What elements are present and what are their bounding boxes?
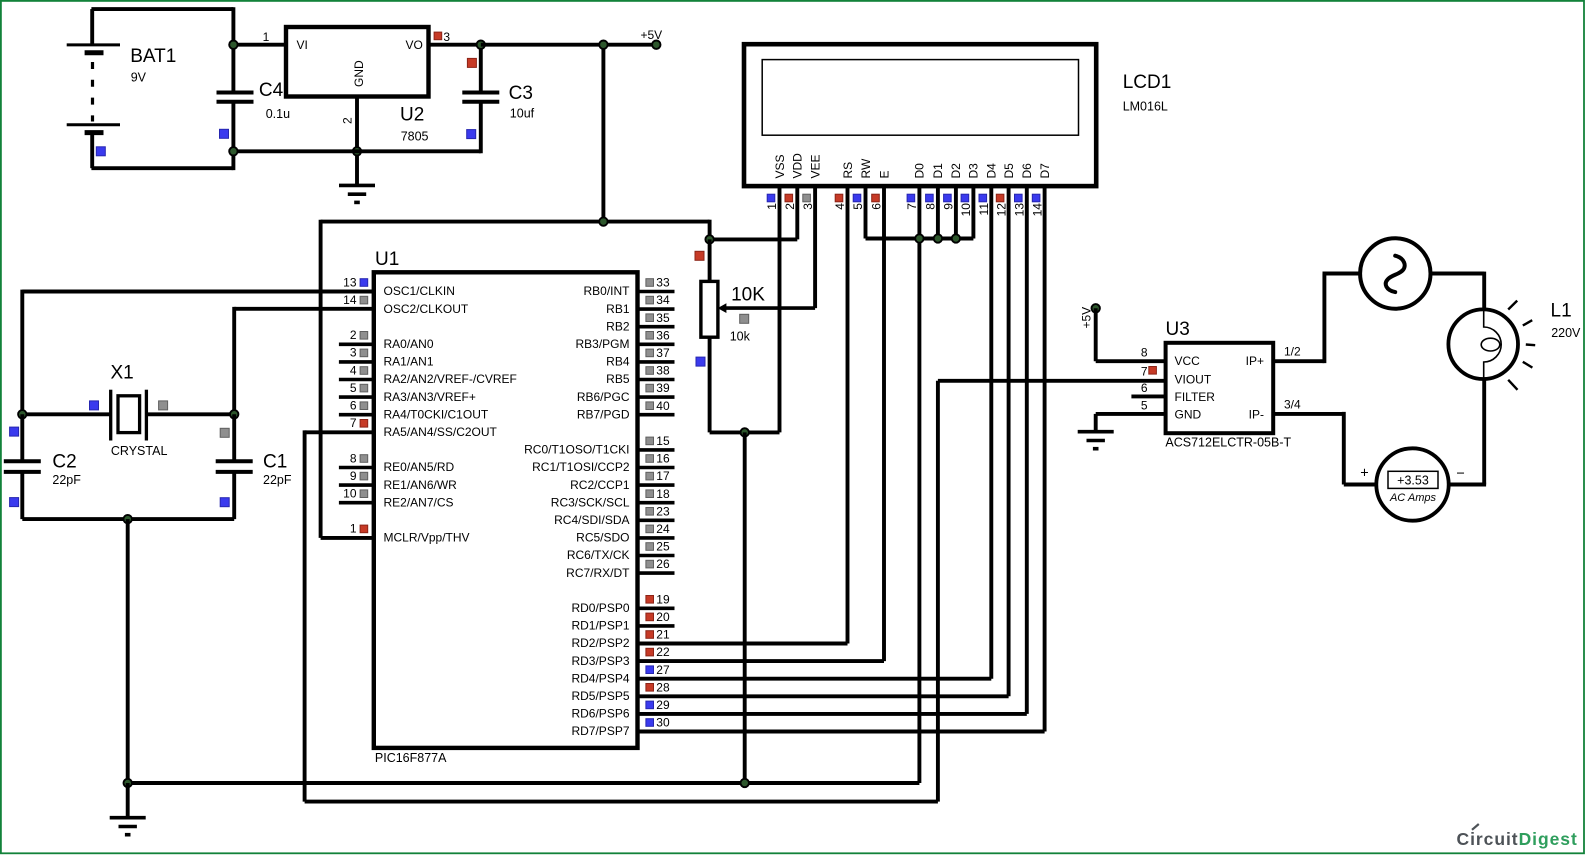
wire U3 VCC [1096, 359, 1166, 363]
wire U2 VI [233, 43, 286, 47]
wire pot bottom rail [710, 430, 780, 434]
svg-text:220V: 220V [1551, 326, 1581, 340]
label U2 [400, 104, 424, 125]
svg-text:3: 3 [443, 30, 450, 44]
junction D0 [915, 234, 923, 242]
pin 25 RC6/TX/CK U1 [567, 540, 675, 563]
svg-text:6: 6 [350, 399, 357, 413]
svg-text:C2: C2 [52, 451, 76, 472]
svg-text:25: 25 [656, 540, 670, 554]
pin 30 RD7/PSP7 U1 [571, 716, 1044, 739]
value C4 0.1u [266, 107, 290, 121]
svg-text:RC2/CCP1: RC2/CCP1 [570, 478, 630, 492]
svg-text:11: 11 [977, 203, 991, 216]
svg-text:PIC16F877A: PIC16F877A [375, 751, 447, 765]
svg-text:8: 8 [350, 451, 357, 465]
svg-text:RB3/PGM: RB3/PGM [575, 337, 629, 351]
pin 4 RA2/AN2/VREF-/CVREF U1 [339, 363, 517, 386]
pin 29 RD6/PSP6 U1 [571, 698, 1026, 721]
pin number 5 U3 [1141, 398, 1148, 412]
pin 2 RA0/AN0 U1 [339, 328, 434, 351]
svg-text:7: 7 [1141, 365, 1148, 379]
svg-text:RC6/TX/CK: RC6/TX/CK [567, 548, 630, 562]
svg-text:19: 19 [656, 592, 670, 606]
wire U2 VO [429, 43, 481, 47]
svg-text:17: 17 [656, 469, 670, 483]
svg-text:C3: C3 [509, 83, 533, 104]
wire MCLR [321, 536, 374, 540]
ground below U2 [339, 185, 375, 202]
svg-text:27: 27 [656, 663, 670, 677]
svg-text:14: 14 [343, 293, 357, 307]
wire gnd rail bottom [128, 781, 920, 785]
pin number 7 U3 [1141, 365, 1148, 379]
svg-text:FILTER: FILTER [1175, 390, 1216, 404]
wire VDD corner [708, 220, 712, 240]
svg-text:L1: L1 [1551, 301, 1572, 322]
svg-text:21: 21 [656, 628, 670, 642]
wire top rail [321, 220, 710, 224]
capacitor C2 [4, 414, 41, 519]
svg-text:CRYSTAL: CRYSTAL [111, 444, 168, 458]
svg-text:RC1/T1OSI/CCP2: RC1/T1OSI/CCP2 [532, 460, 630, 474]
svg-text:10: 10 [343, 487, 357, 501]
svg-text:IP-: IP- [1249, 407, 1264, 421]
wire crystal bottom rail [22, 517, 234, 521]
svg-text:34: 34 [656, 293, 670, 307]
svg-text:4: 4 [833, 203, 847, 210]
svg-text:28: 28 [656, 680, 670, 694]
svg-text:0.1u: 0.1u [266, 107, 290, 121]
svg-text:9: 9 [350, 469, 357, 483]
svg-text:RE2/AN7/CS: RE2/AN7/CS [384, 495, 454, 509]
pin 28 RD5/PSP5 U1 [571, 680, 1008, 703]
pin 12 D5 LCD1 [994, 163, 1016, 696]
svg-text:1/2: 1/2 [1284, 345, 1301, 359]
svg-text:RA2/AN2/VREF-/CVREF: RA2/AN2/VREF-/CVREF [384, 372, 517, 386]
svg-text:10k: 10k [730, 329, 751, 343]
label X1 [111, 363, 134, 384]
svg-text:3: 3 [350, 346, 357, 360]
svg-text:3: 3 [801, 203, 815, 210]
pin 18 RC3/SCK/SCL U1 [551, 487, 675, 510]
wire viout riser [936, 381, 940, 802]
junction crystal gnd [124, 515, 132, 523]
pin 26 RC7/RX/DT U1 [566, 557, 674, 580]
wire to ammeter [1344, 483, 1376, 487]
wire gnd rail [233, 149, 480, 153]
capacitor C3 [462, 93, 499, 102]
pin 5 RA3/AN3/VREF+ U1 [339, 381, 476, 404]
svg-text:D1: D1 [931, 163, 945, 179]
pin 38 RB5 U1 [606, 364, 674, 387]
LCD LCD1 box [744, 44, 1096, 186]
wire VDD horizontal [710, 237, 798, 241]
C2 square bottom [10, 498, 19, 507]
label LCD1 [1123, 72, 1172, 93]
svg-text:20: 20 [656, 610, 670, 624]
ammeter minus [1456, 466, 1464, 482]
svg-text:U2: U2 [400, 104, 424, 125]
svg-text:RC7/RX/DT: RC7/RX/DT [566, 566, 630, 580]
wire lamp riser [1482, 272, 1486, 310]
svg-text:3/4: 3/4 [1284, 397, 1301, 411]
pin 10 D3 LCD1 [959, 163, 981, 239]
svg-text:VDD: VDD [791, 153, 805, 179]
pin 19 RD0/PSP0 U1 [571, 592, 674, 615]
pin number 6 U3 [1141, 381, 1148, 395]
svg-text:VSS: VSS [773, 154, 787, 178]
pin 8 RE0/AN5/RD U1 [339, 451, 455, 474]
wire +5V rail [481, 43, 657, 47]
svg-text:7805: 7805 [401, 130, 429, 144]
svg-text:GND: GND [1175, 407, 1202, 421]
svg-text:RS: RS [841, 162, 855, 179]
svg-text:D7: D7 [1038, 163, 1052, 179]
label U1 [375, 249, 399, 270]
pin 4 RS LCD1 [833, 162, 855, 644]
svg-text:22pF: 22pF [263, 473, 292, 487]
wire IP- drop [1342, 412, 1346, 485]
svg-text:RD6/PSP6: RD6/PSP6 [571, 707, 629, 721]
pin 14 D7 LCD1 [1030, 163, 1052, 732]
label 3/4 [1284, 397, 1301, 411]
svg-text:D4: D4 [985, 163, 999, 179]
ammeter AM1 [1376, 448, 1448, 520]
svg-text:RC0/T1OSO/T1CKI: RC0/T1OSO/T1CKI [524, 443, 629, 457]
pin VI label [297, 38, 308, 52]
svg-text:D3: D3 [967, 163, 981, 179]
pot square wiper [740, 314, 749, 323]
wire battery top [91, 7, 233, 11]
pin 10 RE2/AN7/CS U1 [339, 487, 454, 510]
svg-text:AC Amps: AC Amps [1389, 492, 1437, 504]
ammeter units [1389, 492, 1437, 504]
wire RA5 riser [303, 430, 307, 801]
pin VCC label [1175, 354, 1201, 368]
svg-text:MCLR/Vpp/THV: MCLR/Vpp/THV [384, 531, 470, 545]
svg-text:1: 1 [263, 30, 270, 44]
value 9V [131, 71, 147, 85]
junction U2 gnd [353, 147, 361, 155]
svg-text:RB4: RB4 [606, 355, 630, 369]
svg-text:26: 26 [656, 557, 670, 571]
svg-text:RA1/AN1: RA1/AN1 [384, 355, 434, 369]
svg-text:RB7/PGD: RB7/PGD [577, 407, 630, 421]
svg-text:U1: U1 [375, 249, 399, 270]
pin 13 OSC1/CLKIN U1 [343, 275, 455, 298]
svg-text:RD4/PSP4: RD4/PSP4 [571, 671, 629, 685]
svg-text:RB6/PGC: RB6/PGC [577, 390, 630, 404]
svg-text:IP+: IP+ [1246, 354, 1264, 368]
svg-text:36: 36 [656, 328, 670, 342]
svg-text:29: 29 [656, 698, 670, 712]
svg-text:14: 14 [1030, 203, 1044, 217]
svg-text:RB2: RB2 [606, 319, 630, 333]
svg-text:RE0/AN5/RD: RE0/AN5/RD [384, 460, 455, 474]
crystal X1 [22, 390, 234, 441]
pin 36 RB3/PGM U1 [575, 328, 674, 351]
wire U3 vcc riser [1094, 308, 1098, 361]
pin 20 RD1/PSP1 U1 [571, 610, 674, 633]
value C1 22pF [263, 473, 292, 487]
C1 square top [220, 428, 229, 437]
svg-text:D5: D5 [1002, 163, 1016, 179]
svg-text:1: 1 [765, 203, 779, 210]
LCD display window [762, 60, 1078, 136]
pin U2 GND [355, 97, 359, 152]
crystal square right [159, 401, 168, 410]
svg-text:RE1/AN6/WR: RE1/AN6/WR [384, 478, 458, 492]
svg-text:7: 7 [905, 203, 919, 210]
junction battery pin1 [229, 41, 237, 49]
pin square 3 U2 [434, 32, 442, 40]
wire lamp to ammeter [1449, 483, 1486, 487]
svg-text:VEE: VEE [808, 154, 822, 178]
pot wiper arrow [718, 303, 816, 313]
svg-text:4: 4 [350, 363, 357, 377]
svg-text:8: 8 [924, 203, 938, 210]
wire to source [1323, 272, 1361, 276]
ground U3 [1078, 432, 1114, 449]
potentiometer RV1 body [701, 281, 718, 337]
pin 1 VSS LCD1 [765, 154, 787, 432]
svg-text:22pF: 22pF [52, 473, 81, 487]
svg-text:24: 24 [656, 522, 670, 536]
svg-text:RB0/INT: RB0/INT [583, 284, 630, 298]
svg-text:40: 40 [656, 399, 670, 413]
junction C3 top [477, 41, 485, 49]
pin IP+ label [1246, 354, 1264, 368]
wire pot bottom [708, 336, 712, 433]
wire OSC2 [234, 307, 374, 311]
pin FILTER stub [1131, 394, 1165, 398]
svg-text:VI: VI [297, 38, 308, 52]
pin 37 RB4 U1 [606, 346, 674, 369]
svg-text:33: 33 [656, 276, 670, 290]
pin 22 RD3/PSP3 U1 [571, 645, 884, 668]
wire gnd sym drop [126, 783, 130, 818]
pin 7 D0 LCD1 [905, 163, 927, 783]
pin 3 VEE LCD1 [801, 154, 823, 308]
wire source to lamp [1431, 272, 1485, 276]
svg-text:RD2/PSP2: RD2/PSP2 [571, 636, 629, 650]
pin FILTER label [1175, 390, 1216, 404]
wire battery bottom [91, 166, 233, 170]
pin 2 VDD LCD1 [783, 153, 805, 240]
svg-text:2: 2 [341, 117, 355, 124]
value PIC16F877A [375, 751, 447, 765]
wire MCLR riser [319, 220, 323, 538]
value LM016L [1123, 100, 1168, 114]
wire viout rail [305, 800, 938, 804]
svg-text:9: 9 [942, 203, 956, 210]
pin 6 E LCD1 [870, 170, 892, 661]
wire RA5 stub [305, 430, 374, 434]
crystal square left [90, 401, 99, 410]
svg-text:D6: D6 [1020, 163, 1034, 179]
svg-text:−: − [1456, 466, 1464, 482]
pin 40 RB7/PGD U1 [577, 399, 675, 422]
C2 square top [10, 427, 19, 436]
regulator U2 box [286, 27, 429, 97]
svg-text:OSC1/CLKIN: OSC1/CLKIN [384, 284, 455, 298]
svg-text:C4: C4 [259, 80, 284, 101]
svg-text:ACS712ELCTR-05B-T: ACS712ELCTR-05B-T [1165, 436, 1291, 450]
label C1 [263, 451, 287, 472]
pin 14 OSC2/CLKOUT U1 [343, 293, 469, 316]
svg-text:RC3/SCK/SCL: RC3/SCK/SCL [551, 495, 630, 509]
ground bottom left [110, 818, 146, 835]
value C2 22pF [52, 473, 81, 487]
svg-text:12: 12 [994, 203, 1008, 217]
wire IP+ out [1273, 359, 1325, 363]
svg-text:6: 6 [870, 203, 884, 210]
pin 16 RC1/T1OSI/CCP2 U1 [532, 452, 674, 475]
wire crystal gnd drop [126, 519, 130, 783]
wire IP- out [1273, 412, 1344, 416]
wire C3 bottom [479, 102, 483, 153]
wire pot top [708, 239, 712, 281]
junction gnd mid [741, 779, 749, 787]
svg-text:RD0/PSP0: RD0/PSP0 [571, 601, 629, 615]
svg-text:RW: RW [859, 158, 873, 178]
svg-text:10K: 10K [731, 285, 765, 306]
label +5V U3 [1080, 307, 1094, 329]
svg-text:VO: VO [406, 38, 423, 52]
svg-text:LCD1: LCD1 [1123, 72, 1172, 93]
svg-text:RB5: RB5 [606, 372, 630, 386]
pin 1 MCLR/Vpp/THV U1 [350, 522, 470, 545]
junction pot top [705, 235, 713, 243]
sensor U3 box [1166, 343, 1274, 433]
junction crystal left [18, 410, 26, 418]
wire battery right riser lower [231, 102, 235, 170]
probe square BAT1 [96, 147, 105, 156]
wire OSC1 [22, 290, 374, 294]
svg-text:22: 22 [656, 645, 670, 659]
wire OSC1 riser [20, 290, 24, 415]
value 220V [1551, 326, 1581, 340]
battery BAT1 [67, 9, 120, 168]
pin 7 RA5/AN4/SS/C2OUT U1 [350, 416, 498, 439]
pin number 1 U2 [263, 30, 270, 44]
svg-text:10: 10 [959, 203, 973, 217]
label BAT1 [130, 46, 176, 67]
pin 13 D6 LCD1 [1013, 163, 1035, 714]
wire viout horizontal [938, 379, 1166, 383]
logo CircuitDigest [1457, 824, 1578, 849]
capacitor C1 [216, 414, 253, 519]
svg-text:13: 13 [343, 275, 357, 289]
pin GND label U3 [1175, 407, 1202, 421]
svg-text:2: 2 [350, 328, 357, 342]
svg-text:+5V: +5V [641, 28, 663, 42]
wire RW gnd net [866, 237, 974, 241]
svg-text:37: 37 [656, 346, 670, 360]
pin GND label U2 [352, 60, 366, 87]
probe square C3 top [467, 58, 476, 67]
pin 3 RA1/AN1 U1 [339, 346, 434, 369]
junction crystal right [230, 410, 238, 418]
svg-text:9V: 9V [131, 71, 147, 85]
junction +5V drop [599, 41, 607, 49]
pin 34 RB1 U1 [606, 293, 674, 316]
pin number 3 U2 [443, 30, 450, 44]
svg-text:23: 23 [656, 504, 670, 518]
svg-text:RD5/PSP5: RD5/PSP5 [571, 689, 629, 703]
AC source V1 [1360, 238, 1430, 308]
svg-text:39: 39 [656, 381, 670, 395]
pin 9 RE1/AN6/WR U1 [339, 469, 457, 492]
pot square top [695, 251, 704, 260]
pin 15 RC0/T1OSO/T1CKI U1 [524, 434, 674, 457]
junction battery gnd [229, 147, 237, 155]
svg-text:OSC2/CLKOUT: OSC2/CLKOUT [384, 302, 469, 316]
junction pot gnd [741, 428, 749, 436]
pin 23 RC4/SDI/SDA U1 [554, 504, 674, 527]
pin 27 RD4/PSP4 U1 [571, 663, 991, 686]
lamp L1 [1448, 309, 1518, 379]
label L1 [1551, 301, 1572, 322]
capacitor C4 [217, 93, 254, 102]
wire gnd drop mid [743, 432, 747, 783]
svg-text:D2: D2 [949, 163, 963, 179]
svg-text:RD7/PSP7: RD7/PSP7 [571, 724, 629, 738]
svg-text:+5V: +5V [1080, 307, 1094, 329]
ammeter plus [1360, 466, 1368, 482]
svg-text:13: 13 [1013, 203, 1027, 217]
svg-text:5: 5 [851, 203, 865, 210]
pin 24 RC5/SDO U1 [576, 522, 674, 545]
label C3 [509, 83, 533, 104]
svg-text:GND: GND [352, 60, 366, 87]
svg-text:RB1: RB1 [606, 302, 630, 316]
label +5V [641, 28, 663, 42]
wire C3 top [479, 43, 483, 93]
wire +5V drop [601, 45, 605, 222]
terminal +5V U3 [1092, 304, 1100, 312]
value ACS712ELCTR-05B-T [1165, 436, 1291, 450]
svg-text:38: 38 [656, 364, 670, 378]
junction gnd left [124, 779, 132, 787]
svg-text:VCC: VCC [1175, 354, 1201, 368]
pin 11 D4 LCD1 [977, 163, 999, 679]
terminal +5V [652, 41, 660, 49]
microcontroller U1 box [374, 272, 638, 748]
junction +5V toprail [599, 217, 607, 225]
wire U3 GND [1096, 412, 1166, 416]
svg-text:+3.53: +3.53 [1397, 473, 1429, 487]
svg-text:CircuitDigest: CircuitDigest [1457, 829, 1578, 849]
pin number 2 U2 [341, 117, 355, 124]
svg-text:7: 7 [350, 416, 357, 430]
pin 21 RD2/PSP2 U1 [571, 628, 847, 651]
pin 5 RW LCD1 [851, 158, 873, 238]
svg-text:RA3/AN3/VREF+: RA3/AN3/VREF+ [384, 390, 476, 404]
svg-text:5: 5 [350, 381, 357, 395]
label C4 [259, 80, 284, 101]
svg-text:18: 18 [656, 487, 670, 501]
svg-text:6: 6 [1141, 381, 1148, 395]
value 7805 [401, 130, 429, 144]
probe square C4 [220, 129, 229, 138]
svg-text:RA5/AN4/SS/C2OUT: RA5/AN4/SS/C2OUT [384, 425, 498, 439]
svg-text:RC5/SDO: RC5/SDO [576, 531, 629, 545]
pin VO label [406, 38, 423, 52]
svg-text:C1: C1 [263, 451, 287, 472]
label C2 [52, 451, 76, 472]
